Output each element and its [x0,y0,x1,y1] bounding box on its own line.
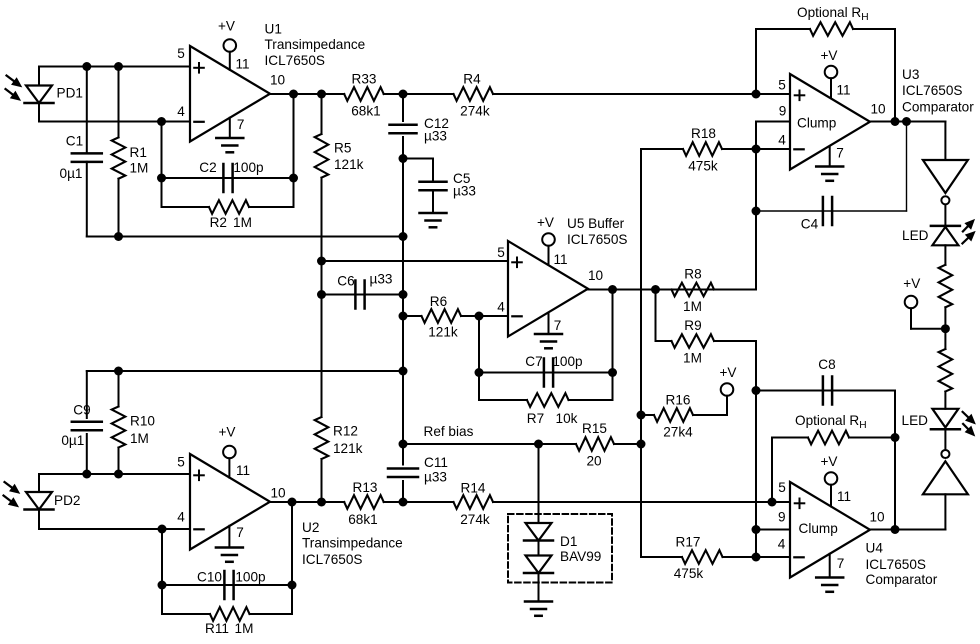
wire to +V node [944,307,946,349]
resistor Optional RH (U3) [756,28,810,30]
svg-text:5: 5 [497,245,505,260]
node R9 branch [651,285,660,294]
wire LED1 to R [944,245,946,264]
svg-text:475k: 475k [674,566,704,581]
node C4 left [752,207,761,216]
svg-text:1M: 1M [683,351,702,366]
U5 + symbol [512,261,522,263]
wire R to LED2 [944,392,946,409]
wire R11/C10 right leg [291,502,293,614]
svg-text:U4: U4 [866,541,884,556]
resistor R16 [654,408,693,422]
svg-text:µ33: µ33 [424,470,447,485]
wire top rail to C12 node [87,236,403,238]
svg-text:4: 4 [177,510,185,525]
resistor R1 [118,67,120,138]
LED top arrows [963,225,969,231]
U2 + symbol [194,474,204,476]
node U4 pin4 [752,553,761,562]
svg-text:+V: +V [820,48,837,63]
ground C5 [432,190,434,213]
U5 - symbol [512,315,521,317]
resistor R6 [403,315,422,317]
wire U2 output [270,501,344,503]
diode D1b [526,556,552,574]
node R6 left [399,312,408,321]
svg-text:11: 11 [836,83,850,98]
svg-text:C9: C9 [73,403,90,418]
node pin4/C2 junction [157,117,166,126]
wire U4 output [870,529,945,531]
node U2 feedback/out [288,498,297,507]
capacitor C5 [420,181,447,184]
node C9 bottom [82,470,91,479]
wire R14 to U4 +input [493,501,790,503]
node R10 top [114,367,123,376]
svg-text:R8: R8 [684,267,701,282]
wire R13-R14 [384,501,454,503]
svg-text:0µ1: 0µ1 [61,433,84,448]
inverter B (bottom) [941,450,949,458]
node RH/out (U3) [891,117,900,126]
svg-text:C1: C1 [66,134,83,149]
wire C8 right leg [894,391,896,530]
svg-text:PD1: PD1 [57,86,83,101]
wire R2/C2 right leg [293,94,295,207]
node C12 top [399,90,408,99]
svg-text:475k: 475k [688,159,718,174]
node R16 tap [637,411,646,420]
svg-text:4: 4 [778,133,786,148]
wire chain bottom [944,494,946,529]
svg-text:274k: 274k [460,512,490,527]
op-amp U4 [790,482,870,578]
svg-text:ICL7650S: ICL7650S [265,53,325,68]
svg-text:R7: R7 [527,411,544,426]
svg-text:68k1: 68k1 [348,512,377,527]
node R12/U2 out [317,498,326,507]
wire D1a-D1b [538,541,540,556]
svg-text:4: 4 [177,104,185,119]
photodiode PD2 [38,474,40,492]
node U5 +input tap [317,257,326,266]
svg-text:U1: U1 [265,22,282,37]
wire Ref bias [403,443,576,445]
U3 - symbol [794,148,803,150]
node C5 branch [399,154,408,163]
svg-text:R9: R9 [684,318,701,333]
svg-text:U3: U3 [902,67,919,82]
svg-text:5: 5 [778,480,786,495]
node U3 pin5 [752,90,761,99]
svg-text:Comparator: Comparator [866,572,938,587]
resistor R4 [454,87,494,101]
svg-text:R6: R6 [430,294,447,309]
ground U3 pin 7 [829,147,831,167]
svg-text:+V: +V [218,425,235,440]
wire PD2 top rail [87,370,403,372]
node C10 right [288,581,297,590]
node U5 pin4 junction [475,312,484,321]
LED bottom arrows [963,412,970,418]
capacitor C11 [388,467,418,470]
svg-text:U5 Buffer: U5 Buffer [567,216,625,231]
capacitor C2 [162,177,294,179]
svg-text:10k: 10k [556,411,578,426]
wire R5 to R12 [321,178,323,417]
U4 - symbol [794,556,803,558]
node C8 left [752,386,761,395]
svg-text:R18: R18 [691,126,716,141]
node C7 left [475,368,484,377]
svg-text:Clump: Clump [797,116,836,131]
svg-text:9: 9 [778,510,786,525]
svg-text:5: 5 [778,78,786,93]
svg-text:R5: R5 [334,141,351,156]
svg-text:+V: +V [719,365,736,380]
resistor Optional RH (U4) [772,437,808,439]
svg-text:LED: LED [902,413,929,428]
power +V (U2 pin 11) [223,446,236,459]
svg-text:µ33: µ33 [424,129,447,144]
wire U1 +input net (pin 5 line) [39,66,190,68]
svg-text:C8: C8 [818,357,835,372]
svg-text:274k: 274k [460,104,490,119]
wire C5 branch [403,158,433,160]
svg-text:Clump: Clump [799,521,838,536]
wire D1 leg [538,444,540,523]
wire U4 pin9 stub [756,529,790,531]
svg-text:ICL7650S: ICL7650S [567,232,627,247]
wire U3 pin9 stub [756,121,790,123]
op-amp U1 [190,46,270,142]
resistor R12 [315,417,329,459]
wire U5 feedback right leg [612,290,614,401]
svg-text:4: 4 [778,537,786,552]
resistor R7 [479,399,527,401]
wire RH left leg (U4) [771,438,773,503]
capacitor C8 [756,390,895,392]
ground U1 pin 7 [229,118,231,138]
svg-text:ICL7650S: ICL7650S [302,552,362,567]
wire LED2 to bubble [944,429,946,449]
wire U1 -input net (pin 4 line) [39,121,190,123]
node rail / C12 column [399,232,408,241]
wire U3 feedback column [755,122,757,290]
svg-text:11: 11 [235,57,249,72]
svg-text:5: 5 [177,46,185,61]
svg-text:+V: +V [218,19,235,34]
svg-text:R14: R14 [461,481,486,496]
resistor R9 [656,340,672,342]
resistor chain lower [939,349,953,392]
svg-text:C10: C10 [197,570,222,585]
svg-text:R17: R17 [676,535,701,550]
U3 + symbol [795,94,805,96]
svg-text:27k4: 27k4 [663,425,693,440]
svg-text:7: 7 [554,318,562,333]
node U5 out/C7 [608,285,617,294]
svg-text:Transimpedance: Transimpedance [265,37,366,52]
wire C10 left leg [161,529,163,614]
ground D1 [538,573,540,602]
resistor R10 [118,371,120,407]
power +V (R16) [721,383,734,396]
U1 + symbol [194,67,204,69]
wire RH right leg (U3) [894,29,896,122]
svg-text:11: 11 [236,463,250,478]
capacitor C4 [756,210,907,212]
wire RH left leg (U3) [755,29,757,94]
power +V (U4 pin 11) [825,472,838,485]
svg-text:R13: R13 [353,480,378,495]
capacitor C10 [162,584,292,586]
wire R12 bottom [321,459,323,502]
wire U4 feedback column [755,341,757,557]
svg-text:PD2: PD2 [54,493,80,508]
ground U2 pin 7 [228,526,230,548]
svg-text:121k: 121k [334,157,364,172]
power +V (U5 pin 11) [542,233,555,246]
svg-text:C6: C6 [337,274,354,289]
node C10 left [158,581,167,590]
svg-text:9: 9 [779,104,787,119]
svg-text:+V: +V [820,454,837,469]
capacitor C6 [322,294,404,296]
node chain +V [941,324,950,333]
svg-text:C2: C2 [199,160,216,175]
node C1 top [82,62,91,71]
svg-text:+V: +V [903,276,920,291]
ground U5 pin 7 [548,313,550,334]
resistor R17 [641,556,682,558]
svg-text:1M: 1M [683,299,702,314]
dashed box D1 [508,514,612,583]
resistor R18 [641,148,683,150]
svg-text:BAV99: BAV99 [560,549,601,564]
svg-text:1M: 1M [233,215,252,230]
resistor R14 [454,495,494,509]
svg-text:C7: C7 [525,354,542,369]
wire U2 -input net (pin 4 line) [39,528,190,530]
node PD2 rail end [399,367,408,376]
wire chain top [944,122,946,161]
svg-text:R10: R10 [130,414,155,429]
node R1 top [114,62,123,71]
svg-text:C4: C4 [801,217,819,232]
wire C2 left leg [161,122,163,208]
svg-text:10: 10 [588,268,604,283]
node U4 pin9 [752,525,761,534]
resistor R11 [162,613,210,615]
wire R5 top [321,94,323,134]
svg-text:10: 10 [870,102,886,117]
node D1 top [534,440,543,449]
node C6 right [399,290,408,299]
photodiode PD1 [38,67,40,86]
U2 - symbol [194,528,203,530]
svg-text:7: 7 [236,525,244,540]
wire U2 +input net (pin 5 line) [39,473,190,475]
wire U5 feedback left leg [478,316,480,400]
U4 + symbol [795,502,805,504]
svg-text:100p: 100p [235,570,265,585]
op-amp U5 [508,241,588,337]
node C2 right [289,174,298,183]
svg-text:µ33: µ33 [370,272,393,287]
PD1 light arrows [7,76,16,82]
capacitor C1 [86,67,88,154]
resistor R8 [672,283,715,297]
wire R33-R4 [384,93,454,95]
svg-text:0µ1: 0µ1 [60,166,83,181]
svg-text:R1: R1 [130,145,147,160]
op-amp U3 [790,74,870,170]
resistor R2 [162,206,210,208]
svg-text:Comparator: Comparator [902,100,974,115]
node R10 bottom [114,470,123,479]
svg-text:ICL7650S: ICL7650S [902,83,962,98]
node C11 bottom [399,498,408,507]
wire ref bias column [640,149,642,557]
svg-text:5: 5 [177,455,185,470]
svg-text:R12: R12 [333,424,358,439]
svg-text:7: 7 [836,146,844,161]
ground U4 pin 7 [829,554,831,578]
wire U5 output [588,289,756,291]
node U4 pin5 [768,498,777,507]
svg-text:D1: D1 [560,534,577,549]
svg-text:11: 11 [837,489,851,504]
svg-text:7: 7 [837,556,845,571]
wire R9 branch leg [655,290,657,342]
diode D1a [526,523,552,541]
U1 - symbol [194,121,203,123]
svg-text:11: 11 [553,252,567,267]
wire bubble to LED1 [944,205,946,226]
svg-text:LED: LED [902,228,929,243]
svg-text:R15: R15 [582,421,607,436]
svg-text:4: 4 [497,300,505,315]
node R1 bottom rail [114,232,123,241]
svg-text:C11: C11 [424,455,448,470]
svg-text:10: 10 [270,73,286,88]
node C4/out (U3) [902,117,911,126]
resistor R15 [576,437,614,451]
capacitor C9 [86,371,88,418]
node RH right (U4) [891,433,900,442]
svg-text:R16: R16 [666,393,691,408]
node RH-C8/out (U4) [891,525,900,534]
inverter A (top) [923,160,968,193]
node C2 left [157,174,166,183]
svg-text:100p: 100p [552,354,582,369]
resistor R5 [315,134,329,178]
svg-text:Ref bias: Ref bias [424,424,474,439]
svg-text:U2: U2 [302,520,319,535]
LED D-top [931,225,960,228]
svg-text:68k1: 68k1 [351,104,380,119]
node ref bias left [399,440,408,449]
capacitor C12 [402,94,404,121]
svg-text:100p: 100p [233,160,263,175]
resistor R13 [344,495,384,509]
power +V (U3 pin 11) [825,66,838,79]
svg-text:ICL7650S: ICL7650S [866,557,926,572]
wire U1 output [270,93,344,95]
resistor chain upper [939,265,953,308]
svg-text:µ33: µ33 [453,184,476,199]
svg-text:1M: 1M [130,161,149,176]
node R5 top [317,90,326,99]
PD2 light arrows [5,482,14,488]
node C6 left [317,290,326,299]
svg-text:10: 10 [869,510,885,525]
svg-text:10: 10 [270,486,286,501]
svg-text:7: 7 [237,117,245,132]
svg-text:R11: R11 [205,621,229,636]
svg-text:1M: 1M [235,621,254,636]
capacitor C7 [479,372,613,374]
power +V (U1 pin 11) [224,39,237,52]
power +V (chain) [905,296,918,309]
wire U3 output [870,121,945,123]
svg-text:R33: R33 [352,72,377,87]
op-amp U2 [190,454,270,550]
node pin4/C10 junction [158,525,167,534]
node U3 pin4 [752,145,761,154]
svg-text:20: 20 [586,454,602,469]
node feedback/out [289,90,298,99]
node C7 right [608,368,617,377]
resistor R33 [344,87,384,101]
wire U5 +input [322,260,509,262]
svg-text:R2: R2 [210,215,227,230]
svg-text:Transimpedance: Transimpedance [302,536,403,551]
svg-text:+V: +V [537,215,554,230]
svg-text:R4: R4 [463,72,481,87]
svg-text:121k: 121k [333,441,363,456]
svg-text:1M: 1M [130,431,149,446]
svg-text:121k: 121k [428,325,458,340]
wire R4 to U3 +input [493,93,790,95]
wire C4 right leg [906,122,908,212]
LED D-bottom [932,409,958,428]
node ref bias right [637,440,646,449]
